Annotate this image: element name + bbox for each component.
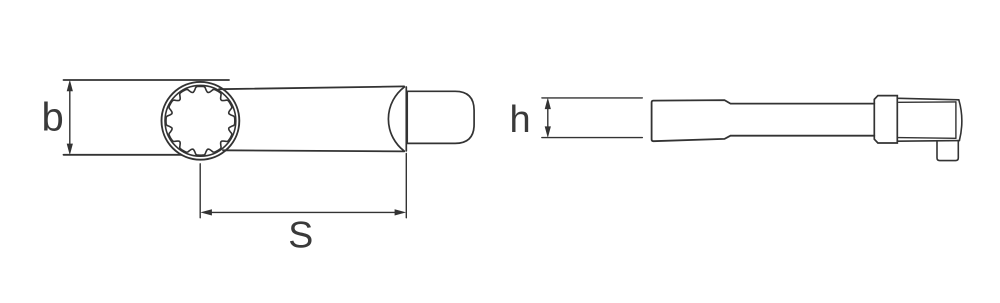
ring inner circle (165, 85, 236, 156)
label h (510, 99, 531, 141)
dimension S arrow right (395, 209, 407, 215)
dimension b arrow down (67, 144, 73, 156)
square drive tab (937, 141, 958, 160)
svg-text:S: S (288, 213, 313, 255)
label S (288, 213, 313, 255)
dimension b arrow up (67, 80, 73, 92)
dimension h dim line (547, 101, 549, 135)
head inner right edge (955, 102, 957, 138)
side view collar (874, 96, 897, 143)
label b (42, 95, 64, 139)
head inner bottom edge (897, 137, 956, 140)
dimension S dim line (204, 211, 403, 213)
shank cone bottom line (223, 150, 404, 151)
end cap (rounded stub) (407, 91, 474, 143)
dimension h top extension line (542, 97, 642, 99)
shank end dome arc (388, 87, 404, 151)
head outer bottom edge (897, 140, 959, 143)
dimension h arrow down (545, 126, 551, 138)
dimension h bottom extension line (542, 137, 642, 139)
ring insert top line (left view, tangent over ring) (64, 79, 230, 81)
svg-text:b: b (42, 95, 64, 139)
svg-text:h: h (510, 99, 531, 141)
head outer right arc (959, 100, 962, 141)
dimension S arrow left (200, 209, 212, 215)
dimension S right extension line (405, 153, 407, 217)
dimension h arrow up (545, 98, 551, 110)
dimension b extension/dim line (69, 84, 71, 152)
ring 12-point serration profile (166, 86, 235, 155)
head inner top edge (899, 101, 956, 103)
shank cone top line (219, 86, 404, 89)
shank end vertical line (405, 87, 407, 151)
head outer top edge (899, 98, 959, 100)
side view ring block outline (652, 100, 875, 141)
ring insert bottom line (left view, stops at ring) (64, 154, 182, 156)
ring outer circle (162, 82, 240, 160)
dimension S left extension line (199, 164, 201, 218)
